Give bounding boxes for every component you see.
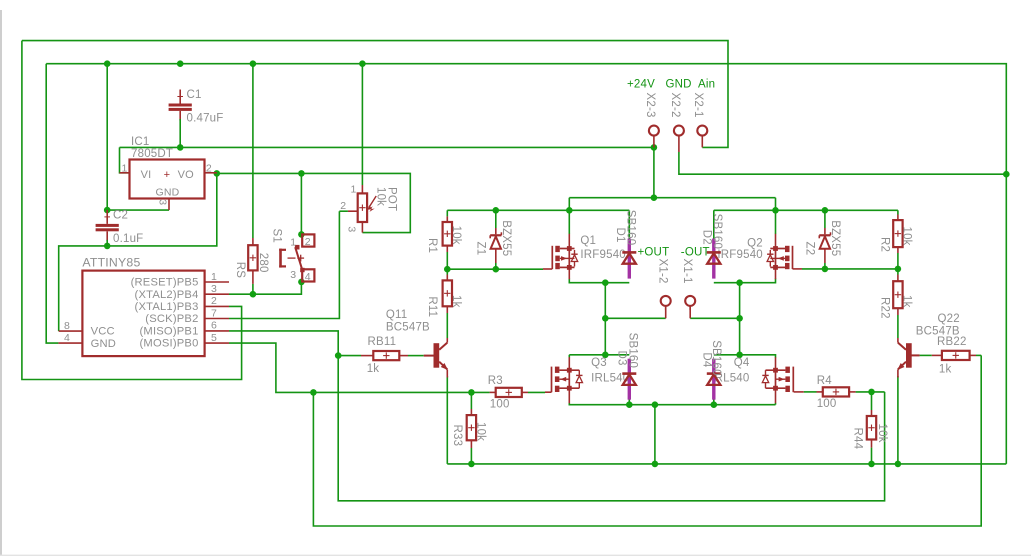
wire C2 top from GND rail <box>106 64 108 210</box>
wire IC1 GND to C2 <box>107 209 169 211</box>
wire Q1 gate lead <box>543 268 552 270</box>
wire Z2 bottom link <box>824 263 826 269</box>
svg-text:10k: 10k <box>450 226 462 245</box>
junction Q2 source <box>772 207 779 214</box>
junction bridge +24V <box>651 194 658 201</box>
microcontroller ATTINY85 <box>58 255 229 356</box>
svg-text:R22: R22 <box>879 297 891 319</box>
wire Q2 gate to Z2 bottom <box>802 268 898 270</box>
wire +5V from IC1 VO <box>217 173 410 232</box>
wire POT wiper to PB2 <box>229 211 339 318</box>
svg-text:0.1uF: 0.1uF <box>113 233 143 245</box>
wire Q22 base to RB22 <box>920 354 932 356</box>
wire POT pin1 from GND rail <box>361 64 363 185</box>
svg-text:BC547B: BC547B <box>386 322 430 334</box>
svg-text:R33: R33 <box>451 425 463 447</box>
wire R1 top lead drop <box>446 210 448 216</box>
resistor R11 1k <box>426 275 462 318</box>
junction GND/RS <box>250 60 257 67</box>
junction Z2 bottom <box>822 266 829 273</box>
svg-text:2: 2 <box>211 295 217 307</box>
wire PB0 to RB22 loop <box>313 355 981 526</box>
svg-text:X1-2: X1-2 <box>657 259 669 284</box>
svg-text:D3: D3 <box>616 351 628 366</box>
wire +5V down left <box>59 173 217 331</box>
switch S1 <box>271 229 315 283</box>
wire Q2 drain to bottom <box>714 279 776 283</box>
svg-text:VO: VO <box>178 169 195 181</box>
svg-text:POT: POT <box>385 187 397 211</box>
svg-text:SB160: SB160 <box>710 340 722 376</box>
wire GND to ATTINY pin4 <box>46 64 58 343</box>
wire bridge top rail <box>569 197 775 199</box>
svg-text:(XTAL1)PB3: (XTAL1)PB3 <box>135 301 199 313</box>
svg-text:SB160: SB160 <box>627 333 639 369</box>
svg-text:Z1: Z1 <box>475 242 487 256</box>
wire R44 hang <box>871 392 873 410</box>
svg-text:4: 4 <box>64 332 70 344</box>
wire R33 bottom <box>470 448 472 464</box>
junction Q3 drain <box>602 352 609 359</box>
wire Q3 drain rail <box>569 354 629 356</box>
wire R22 collector link <box>897 315 899 338</box>
svg-text:Ain: Ain <box>698 79 715 91</box>
capacitor C2 0.1uF <box>96 209 144 245</box>
connector X2-1 <box>692 93 707 148</box>
svg-text:C2: C2 <box>113 209 128 221</box>
wire R44 bottom <box>871 448 873 464</box>
wire Z1 bottom line to Q1 gate <box>447 268 543 270</box>
svg-text:X2-2: X2-2 <box>669 93 681 118</box>
wire Q2 gate lead <box>793 268 803 270</box>
svg-text:SB160: SB160 <box>625 210 637 246</box>
svg-text:7805DT: 7805DT <box>131 148 173 160</box>
wire R3 right to Q3 gate <box>528 391 545 393</box>
svg-text:Q11: Q11 <box>386 309 407 321</box>
wire D3 bottom link <box>628 399 630 405</box>
junction Q22 emitter gnd <box>895 461 902 468</box>
svg-text:0.47uF: 0.47uF <box>187 113 224 125</box>
junction +5V/S1 <box>298 170 305 177</box>
net label +24V <box>627 79 655 91</box>
svg-text:(RESET)PB5: (RESET)PB5 <box>131 277 199 289</box>
svg-text:6: 6 <box>211 320 217 332</box>
wire Z2 top rail <box>714 209 898 211</box>
junction R2/R22 <box>895 266 902 273</box>
junction Q4 drain <box>736 352 743 359</box>
wire X1-2 link <box>605 317 665 319</box>
svg-text:8: 8 <box>64 320 70 332</box>
resistor RB11 1k <box>361 336 408 375</box>
junction RS/PB4 <box>250 291 257 298</box>
label Q2 <box>717 237 763 261</box>
svg-text:Q1: Q1 <box>580 235 596 247</box>
resistor R33 10k <box>451 409 487 448</box>
svg-text:+24V: +24V <box>627 79 655 91</box>
wire PB0 node to R3 left <box>313 391 489 393</box>
junction Z1 top <box>493 207 500 214</box>
svg-text:X2-1: X2-1 <box>692 93 704 118</box>
diode D3 SB160 <box>616 333 639 400</box>
wire R11 top link <box>446 269 448 274</box>
svg-text:1k: 1k <box>450 295 462 308</box>
wire center out to gnd <box>654 405 656 464</box>
wire PB0 to R3 <box>229 343 313 392</box>
svg-text:280: 280 <box>257 253 269 273</box>
junction RB11 node <box>335 352 342 359</box>
label Q1 <box>580 235 626 261</box>
svg-text:10k: 10k <box>876 424 888 443</box>
net label +OUT <box>638 247 670 259</box>
wire Q4 source drop <box>775 403 777 405</box>
svg-text:D2: D2 <box>700 230 712 245</box>
wire PB1 to RB11 <box>229 331 885 501</box>
wire R2 top lead drop <box>897 210 899 214</box>
svg-text:X1-1: X1-1 <box>681 259 693 284</box>
svg-text:1: 1 <box>122 163 128 175</box>
wire Ain top rail <box>22 41 728 148</box>
wire C1 bottom link <box>179 119 181 147</box>
svg-text:(MISO)PB1: (MISO)PB1 <box>140 326 199 338</box>
svg-text:3: 3 <box>346 226 358 232</box>
svg-text:1k: 1k <box>939 364 952 376</box>
wire +24V down to IC1 VI <box>120 147 130 172</box>
wire +24V feed to bridge <box>653 147 655 197</box>
junction GND/POT <box>359 60 366 67</box>
svg-text:VCC: VCC <box>91 326 115 338</box>
wire R1 to node <box>446 252 448 269</box>
resistor R3 100 <box>488 375 528 410</box>
svg-text:2: 2 <box>340 200 346 212</box>
wire D4 bottom link <box>713 399 715 405</box>
svg-text:RS: RS <box>234 262 246 279</box>
svg-text:GND: GND <box>91 338 116 350</box>
svg-text:100: 100 <box>490 399 510 411</box>
svg-text:10k: 10k <box>475 422 487 441</box>
wire RB11 right to Q11 base <box>408 355 424 357</box>
svg-text:+: + <box>164 169 170 181</box>
wire output -OUT down <box>739 283 741 355</box>
wire X1-2 stub down <box>665 306 667 319</box>
connector X2-3 <box>644 93 659 148</box>
svg-text:RB22: RB22 <box>937 336 967 348</box>
junction D3 gnd <box>626 401 633 408</box>
svg-text:R1: R1 <box>426 238 438 253</box>
wire Q3 source to gnd rail <box>569 403 775 405</box>
wire R11 collector link <box>446 313 448 338</box>
connector X2-2 <box>669 93 684 153</box>
wire R1 top rail <box>447 209 629 211</box>
svg-text:2: 2 <box>305 236 311 248</box>
potentiometer 10k POT <box>339 183 397 232</box>
svg-text:R4: R4 <box>817 375 833 387</box>
wire Q11 collector lead <box>446 338 448 343</box>
svg-text:IRF9540: IRF9540 <box>580 249 626 261</box>
wire main ground rail <box>447 463 1006 465</box>
wire Q11 emitter to gnd <box>446 376 448 464</box>
wire Q11 base lead <box>424 355 434 357</box>
wire RB22 right down <box>976 354 981 356</box>
wire GND from X2-2 <box>679 152 1006 174</box>
junction Z2 top <box>822 207 829 214</box>
junction PB0/R3 loop <box>310 389 317 396</box>
junction D4 gnd <box>711 401 718 408</box>
transistor Q3 IRL540 <box>552 357 583 403</box>
junction +24V/X2-3 <box>651 144 658 151</box>
wire Q1 drain to bottom <box>569 279 629 283</box>
svg-text:GND: GND <box>156 187 180 199</box>
voltage regulator IC1 7805DT <box>120 136 217 210</box>
wire Z2 top link <box>824 210 826 228</box>
net label Ain <box>698 79 715 91</box>
svg-text:R11: R11 <box>426 296 438 317</box>
svg-text:IC1: IC1 <box>131 136 150 148</box>
wire Q22 base lead <box>910 354 920 356</box>
label Q22 <box>916 313 960 338</box>
svg-text:Q22: Q22 <box>937 313 959 325</box>
svg-text:VI: VI <box>141 169 152 181</box>
junction IC1 VO <box>214 170 221 177</box>
diode D2 SB160 <box>700 214 723 279</box>
transistor Q4 IRL540 <box>762 357 793 403</box>
transistor Q1 IRF9540 <box>552 234 577 279</box>
wire S1 pin4 to PB4 line <box>229 282 301 294</box>
junction X1-2 tee <box>602 315 609 322</box>
svg-text:(SCK)PB2: (SCK)PB2 <box>145 313 198 325</box>
junction X1-1 tee <box>736 315 743 322</box>
resistor R44 10k <box>851 410 888 450</box>
svg-text:ATTINY85: ATTINY85 <box>82 255 140 269</box>
junction S1 pin2 <box>298 231 305 238</box>
junction R44 gnd <box>868 461 875 468</box>
junction center gnd rail <box>652 461 659 468</box>
svg-text:2: 2 <box>206 163 212 175</box>
wire Q2 source drop <box>775 198 777 234</box>
svg-text:1: 1 <box>211 271 217 283</box>
wire D1 top link <box>628 210 630 240</box>
junction Z1 bottom <box>493 266 500 273</box>
wire X1-1 stub down <box>689 306 691 319</box>
svg-text:3: 3 <box>211 283 217 295</box>
svg-text:10k: 10k <box>901 227 913 246</box>
resistor R22 1k <box>879 275 913 319</box>
svg-text:SB160: SB160 <box>711 214 723 250</box>
junction center gnd <box>652 401 659 408</box>
wire Q22 collector lead <box>897 338 899 343</box>
wire Q4 drain rail <box>714 355 776 358</box>
svg-text:R3: R3 <box>488 375 503 387</box>
wire R33 hang <box>470 392 472 409</box>
junction C1 bottom <box>177 144 184 151</box>
svg-text:-OUT: -OUT <box>681 247 710 259</box>
svg-text:X2-3: X2-3 <box>644 93 656 118</box>
svg-text:Z2: Z2 <box>804 242 816 256</box>
wire D2 top link <box>713 210 715 240</box>
wire R22 top link <box>897 269 899 275</box>
wire output +OUT down <box>604 283 606 355</box>
wire Q4 gate lead <box>794 391 804 393</box>
svg-text:4: 4 <box>305 271 311 283</box>
svg-text:D1: D1 <box>614 228 626 243</box>
transistor Q2 IRF9540 <box>767 234 792 279</box>
junction R1/R11 <box>444 266 451 273</box>
svg-text:R44: R44 <box>851 428 863 450</box>
junction Q1 source <box>566 207 573 214</box>
svg-text:1: 1 <box>290 236 296 248</box>
junction C2 top <box>104 207 111 214</box>
wire +24V line <box>120 146 654 148</box>
svg-text:+OUT: +OUT <box>638 247 670 259</box>
wire C2 bottom link <box>106 240 108 246</box>
wire GND top rail <box>46 64 1006 464</box>
resistor R2 10k <box>879 215 913 254</box>
net label GND <box>666 79 692 91</box>
svg-text:(XTAL2)PB4: (XTAL2)PB4 <box>135 289 199 301</box>
svg-text:1k: 1k <box>367 363 380 375</box>
svg-text:IRF9540: IRF9540 <box>717 249 763 261</box>
label Q11 <box>386 309 430 334</box>
junction GND/C2 <box>104 60 111 67</box>
transistor Q22 BC547B <box>897 343 911 378</box>
junction S1 pin4 <box>298 279 305 286</box>
wire S1 pin2 up to +5V <box>300 173 302 234</box>
junction R3/R33 <box>468 389 475 396</box>
diode D4 SB160 <box>700 340 722 400</box>
wire Z1 bottom link <box>495 263 497 269</box>
resistor RS 280 <box>234 238 269 284</box>
svg-text:BZX55: BZX55 <box>829 220 841 256</box>
wire R4 right to R44 <box>856 391 885 393</box>
svg-text:5: 5 <box>211 332 217 344</box>
svg-text:Q4: Q4 <box>734 357 750 369</box>
wire R4 line <box>804 391 817 393</box>
wire R2 to node <box>897 253 899 269</box>
svg-text:Q3: Q3 <box>591 357 607 369</box>
svg-text:100: 100 <box>817 398 837 410</box>
diode D1 SB160 <box>614 210 637 279</box>
svg-text:Q2: Q2 <box>747 237 763 249</box>
svg-text:R2: R2 <box>879 237 891 252</box>
junction GND right edge <box>1003 171 1010 178</box>
svg-text:7: 7 <box>211 307 217 319</box>
wire Ain loop to PB3 <box>22 41 242 380</box>
svg-text:1k: 1k <box>901 295 913 308</box>
zener diode Z1 BZX55 <box>475 220 513 263</box>
zener diode Z2 BZX55 <box>804 220 842 263</box>
resistor RB22 1k <box>932 336 976 375</box>
junction R4/R44 <box>868 389 875 396</box>
svg-text:S1: S1 <box>271 229 283 243</box>
wire Q3 gate lead <box>545 391 552 393</box>
wire Q1 source drop <box>568 198 570 234</box>
svg-text:3: 3 <box>290 269 296 281</box>
connector X1-1 <box>681 259 695 311</box>
resistor R1 10k <box>426 216 462 253</box>
junction D1 out <box>602 279 609 286</box>
wire Q3 drain drop <box>568 355 570 358</box>
junction D2 out <box>736 279 743 286</box>
svg-text:BZX55: BZX55 <box>500 220 512 256</box>
net label -OUT <box>681 247 710 259</box>
wire RB11 left <box>338 355 361 357</box>
wire Q22 emitter to gnd <box>897 376 899 464</box>
label Q4 <box>711 357 750 384</box>
svg-text:1: 1 <box>351 183 357 195</box>
svg-text:3: 3 <box>157 199 169 205</box>
wire RS top from GND rail <box>252 64 254 238</box>
svg-text:C1: C1 <box>187 89 202 101</box>
wire RS bottom to PB4 <box>252 284 254 294</box>
junction GND/C1 <box>177 60 184 67</box>
connector X1-2 <box>657 259 671 311</box>
wire X1-1 link <box>690 317 739 319</box>
transistor Q11 BC547B <box>434 343 448 378</box>
junction R33 gnd <box>468 461 475 468</box>
resistor R4 100 <box>817 375 856 410</box>
capacitor C1 0.47uF <box>169 89 224 125</box>
svg-text:10k: 10k <box>374 187 386 206</box>
wire Z1 top link <box>495 210 497 228</box>
junction C2 bottom <box>104 243 111 250</box>
label Q3 <box>591 357 629 384</box>
svg-text:RB11: RB11 <box>368 336 397 348</box>
svg-text:(MOSI)PB0: (MOSI)PB0 <box>140 338 199 350</box>
svg-text:GND: GND <box>666 79 692 91</box>
